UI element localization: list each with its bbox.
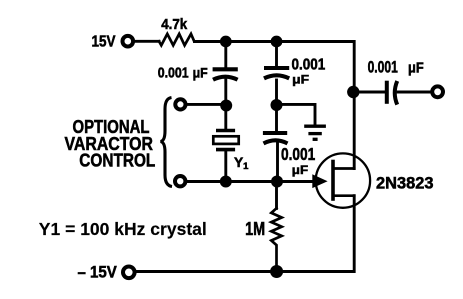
svg-text:15V: 15V: [92, 33, 117, 50]
svg-text:2N3823: 2N3823: [376, 173, 434, 192]
svg-text:0.001: 0.001: [281, 144, 316, 164]
svg-text:μF: μF: [292, 163, 309, 177]
svg-text:0.001: 0.001: [368, 57, 398, 76]
svg-text:4.7k: 4.7k: [161, 17, 187, 33]
svg-text:– 15V: – 15V: [78, 263, 117, 281]
svg-text:0.001: 0.001: [292, 56, 326, 73]
svg-text:1: 1: [243, 161, 249, 172]
svg-text:μF: μF: [193, 64, 208, 80]
svg-text:μF: μF: [292, 73, 309, 87]
svg-text:Y: Y: [234, 155, 243, 170]
svg-text:0.001: 0.001: [158, 64, 189, 81]
svg-text:1M: 1M: [245, 218, 265, 239]
svg-text:Y1 = 100 kHz crystal: Y1 = 100 kHz crystal: [39, 219, 207, 239]
svg-text:μF: μF: [408, 61, 424, 77]
svg-text:CONTROL: CONTROL: [79, 150, 155, 171]
